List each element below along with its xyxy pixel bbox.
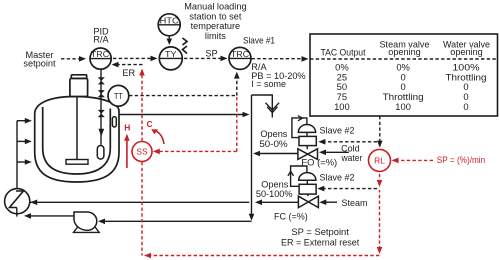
svg-text:FC (=%): FC (=%) [274, 212, 308, 222]
svg-text:0: 0 [463, 101, 468, 112]
svg-text:opening: opening [388, 46, 421, 57]
svg-text:RL: RL [374, 156, 385, 166]
svg-text:Opens: Opens [260, 129, 287, 139]
svg-text:R/A: R/A [93, 35, 109, 45]
svg-text:100: 100 [395, 101, 411, 112]
svg-text:TAC Output: TAC Output [321, 47, 366, 58]
svg-text:TRC: TRC [231, 50, 250, 59]
svg-text:opening: opening [450, 46, 483, 57]
svg-text:SP = (%)/min: SP = (%)/min [437, 155, 485, 165]
svg-text:SP = Setpoint: SP = Setpoint [291, 227, 349, 237]
svg-text:limits: limits [205, 31, 226, 41]
svg-text:ER = External reset: ER = External reset [281, 237, 360, 247]
svg-text:100: 100 [334, 101, 350, 112]
svg-text:FO (=%): FO (=%) [301, 158, 337, 168]
svg-text:SP: SP [205, 49, 217, 59]
svg-text:50-0%: 50-0% [259, 139, 287, 149]
svg-text:HTC: HTC [160, 17, 179, 26]
svg-text:Opens: Opens [261, 179, 288, 189]
svg-text:TRC: TRC [91, 50, 110, 59]
svg-text:water: water [341, 153, 363, 163]
svg-text:setpoint: setpoint [23, 59, 56, 69]
svg-text:Manual loading: Manual loading [184, 2, 246, 12]
svg-text:TY: TY [165, 50, 177, 59]
svg-text:station to set: station to set [189, 11, 242, 21]
svg-text:TT: TT [114, 92, 123, 101]
svg-text:ER: ER [122, 68, 135, 78]
svg-text:SS: SS [136, 147, 148, 157]
svg-text:I = some: I = some [251, 79, 286, 89]
svg-text:H: H [124, 123, 130, 133]
svg-text:C: C [146, 119, 152, 129]
svg-text:50-100%: 50-100% [256, 189, 293, 199]
svg-text:temperature: temperature [191, 21, 241, 31]
svg-text:Slave #1: Slave #1 [243, 35, 275, 45]
svg-text:Steam: Steam [342, 198, 368, 208]
svg-text:Cold: Cold [341, 144, 360, 154]
svg-text:Slave #2: Slave #2 [320, 172, 355, 182]
svg-text:Slave #2: Slave #2 [320, 125, 355, 135]
